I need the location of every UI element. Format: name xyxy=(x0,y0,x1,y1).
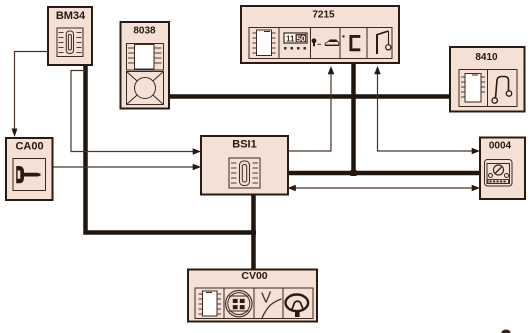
block BSI1 (built-in systems interface) xyxy=(201,136,288,195)
svg-text:CA00: CA00 xyxy=(15,141,43,153)
block CA00 (ignition switch) xyxy=(6,138,53,200)
svg-text:CV00: CV00 xyxy=(241,270,267,282)
wire: thin 7215 bottom to 0004 left (arrows both ends) xyxy=(374,66,480,154)
svg-text:0004: 0004 xyxy=(489,141,512,152)
CV00 cell icon: rotary connector xyxy=(226,290,252,316)
junction: bus T at (353,172.5) xyxy=(351,170,357,176)
wire: thick bus BSI1 right to 0004 left xyxy=(287,171,481,176)
8410 cell icon: chip xyxy=(461,74,485,103)
CV00 cell icon: column stalk xyxy=(262,292,282,319)
7215 cell icon: clock display 1150 xyxy=(284,33,307,50)
page artifact mark bottom right xyxy=(501,330,511,333)
7215 cell icon: remote key and car xyxy=(312,38,339,46)
wire: thin BSI1 right up to 7215 bottom (arrow into 7215) xyxy=(287,66,334,151)
wire: thin bidirectional BSI1 right to 0004 left (arrows both ends) xyxy=(288,185,481,192)
svg-text:50: 50 xyxy=(297,35,306,44)
block CV00 (steering column module) xyxy=(188,270,317,322)
svg-text:BSI1: BSI1 xyxy=(232,139,256,151)
block 0004 (instrument cluster) xyxy=(480,138,525,200)
CV00 cell icon: steering wheel xyxy=(286,295,309,318)
CA00 cell icon: ignition key xyxy=(16,166,40,183)
8410 cell icon: sounder with hanging strikers xyxy=(492,77,512,104)
wire: thick bus 8038 right to 8410 left xyxy=(168,94,451,99)
block 8410 (buzzer unit) xyxy=(450,47,525,112)
wire: thick vertical 7215 bottom to BSI1/0004 bus xyxy=(351,62,356,175)
block 8038 (ventilation unit) xyxy=(121,22,170,109)
svg-text:BM34: BM34 xyxy=(56,10,86,22)
7215 cell icon: door ajar with hanging handle xyxy=(376,31,391,54)
7215 cell icon: microprocessor chip xyxy=(253,30,276,56)
wire: thin CA00 right to BSI1 left (arrow into BSI1) xyxy=(53,164,202,171)
svg-text:11: 11 xyxy=(286,35,295,44)
7215 cell icon: open bracket with dot xyxy=(343,35,361,49)
wire: thick vertical BSI1 bottom to CV00 top xyxy=(251,193,256,271)
block BM34 (battery fuse box) xyxy=(48,7,92,65)
0004 cell icon: gauge panel xyxy=(485,160,513,187)
wire: thin from BM34 left edge down to CA00 (arrow into CA00 top) xyxy=(12,52,49,138)
svg-text:8410: 8410 xyxy=(475,52,498,63)
CV00 cell icon: chip xyxy=(199,291,222,316)
wire: thin tap from battery feed to BSI1 left (arrow into BSI1) xyxy=(71,71,201,155)
svg-text:8038: 8038 xyxy=(133,26,156,37)
block 7215 (multifunction display unit) xyxy=(241,6,399,63)
svg-text:7215: 7215 xyxy=(312,10,335,21)
wire: thick battery feed from BM34 down and right to CV00 column node xyxy=(86,64,257,233)
